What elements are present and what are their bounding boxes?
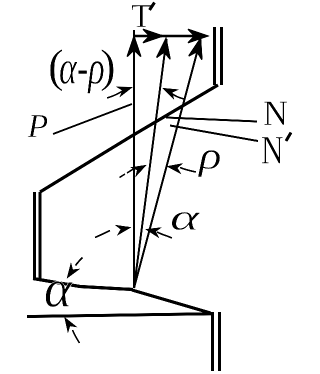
svg-text:N: N xyxy=(261,128,284,173)
arrow left member of alpha pair pointing at vertical line xyxy=(95,231,110,238)
svg-text:): ) xyxy=(100,41,116,93)
wire: lower thread flank right segment xyxy=(132,290,211,313)
wall: top-right double bar xyxy=(213,27,216,85)
arrow left member of rho pair pointing at vector A xyxy=(120,167,137,178)
wire: top horizontal component line xyxy=(133,35,206,37)
svg-text:P: P xyxy=(27,108,49,145)
wire: lower thread flank left segment xyxy=(33,279,133,290)
svg-text:T: T xyxy=(131,0,152,35)
arrow from rho label to vector B xyxy=(180,168,196,173)
svg-text:α: α xyxy=(44,261,73,319)
vector T' vertical force line xyxy=(133,30,135,288)
arrow at lower-left corner pointing at lower flank xyxy=(76,258,83,266)
wire: leader line from vector B to N' xyxy=(170,126,258,142)
vector A (middle, angle alpha-rho from vertical) xyxy=(134,39,167,288)
svg-text:α-ρ: α-ρ xyxy=(59,42,105,95)
svg-text:α: α xyxy=(170,197,201,238)
arrowhead of vertical vector xyxy=(127,37,141,57)
arrowhead mid of top line pointing right xyxy=(143,29,163,43)
arrow from alpha to vector B pointing left xyxy=(157,232,172,238)
wire: leader line from flank to N xyxy=(166,118,257,122)
arrow under base line pointing up at it xyxy=(73,330,80,343)
svg-text:ρ: ρ xyxy=(197,135,222,178)
arrow from (alpha-rho) to vertical line xyxy=(107,90,124,98)
arrowhead of middle vector xyxy=(157,38,173,60)
vector B (right, angle alpha from vertical) xyxy=(134,40,201,289)
arrowhead right end of top line pointing right xyxy=(188,29,208,43)
wall: bottom-right double bar xyxy=(211,312,214,371)
wire: upper thread flank (inclined plane edge) xyxy=(40,85,218,192)
arrowhead of right vector xyxy=(189,37,207,60)
wire: leader line from P to vertical line xyxy=(53,104,132,134)
wall: left double bar xyxy=(33,192,36,279)
wire: bottom horizontal base line xyxy=(27,314,212,317)
arrow right member of (alpha-rho) pair pointing at vector A xyxy=(171,93,184,99)
